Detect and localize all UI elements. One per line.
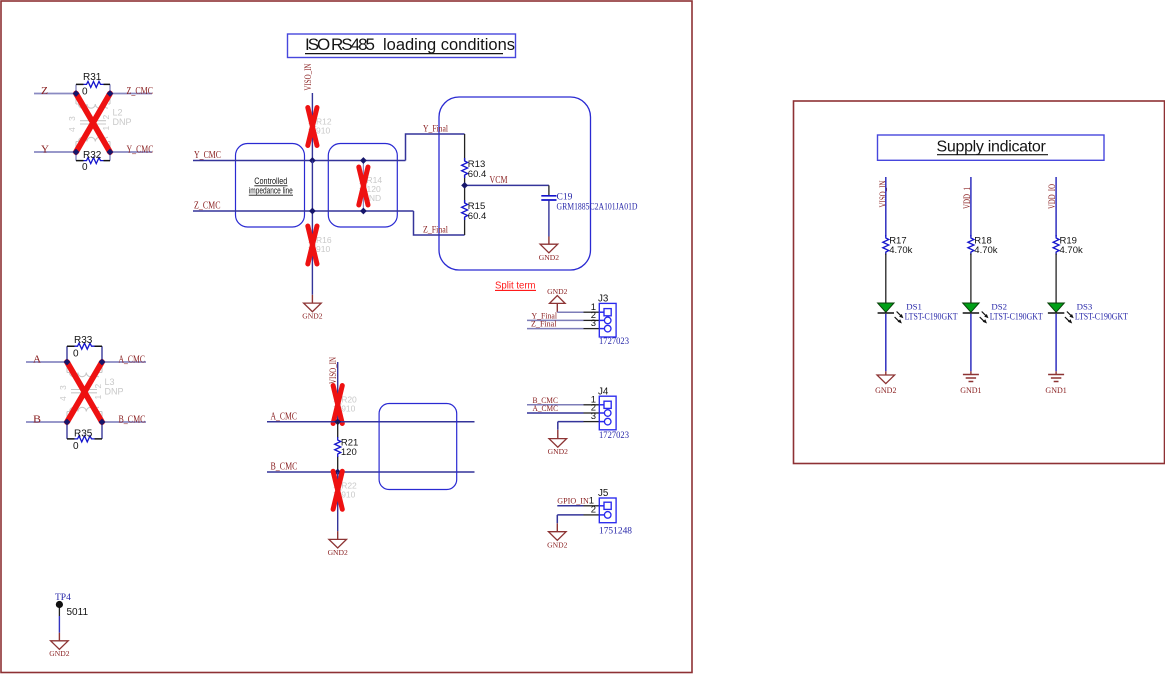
- panel title box: [878, 135, 1105, 160]
- wire J3 pin1: [557, 311, 583, 313]
- svg-text:1751248: 1751248: [599, 526, 632, 537]
- svg-text:GPIO_IN: GPIO_IN: [557, 496, 589, 506]
- svg-text:LTST-C190GKT: LTST-C190GKT: [1075, 311, 1128, 321]
- main schematic frame: [1, 1, 692, 673]
- resistor R16 ghost: [309, 235, 315, 255]
- ground GND1 column3: [1055, 371, 1057, 374]
- DNP cross over R20: [333, 386, 342, 424]
- wire supply 3 top: [1055, 177, 1057, 237]
- svg-text:Z_Final: Z_Final: [531, 319, 557, 329]
- svg-text:4.70k: 4.70k: [974, 245, 997, 256]
- wire A_CMC: [102, 361, 146, 363]
- svg-text:0: 0: [73, 349, 79, 360]
- svg-text:LTST-C190GKT: LTST-C190GKT: [990, 311, 1043, 321]
- svg-text:GND2: GND2: [328, 548, 348, 557]
- svg-text:Z_CMC: Z_CMC: [127, 86, 154, 97]
- wire Y_CMC: [110, 151, 152, 153]
- harness box 2: [328, 144, 397, 228]
- wire supply 1 bottom: [885, 314, 887, 372]
- junction dots L3: [64, 359, 71, 366]
- svg-text:Z: Z: [41, 86, 48, 97]
- svg-text:GND1: GND1: [1045, 386, 1066, 395]
- wire B_CMC: [102, 421, 146, 423]
- svg-text:DNP: DNP: [113, 117, 132, 127]
- svg-text:5011: 5011: [67, 607, 89, 618]
- wire R22 drop: [337, 472, 339, 531]
- svg-text:60.4: 60.4: [468, 211, 487, 222]
- svg-text:GND2: GND2: [539, 253, 559, 262]
- svg-text:DS1: DS1: [906, 301, 922, 311]
- resistor R32 bypass loop: [76, 150, 110, 173]
- wire GPIO_IN to J5 pin1: [557, 505, 583, 507]
- svg-text:0: 0: [73, 441, 79, 452]
- wire VCM: [465, 184, 549, 186]
- svg-text:J4: J4: [598, 386, 609, 397]
- svg-text:impedance line: impedance line: [249, 185, 293, 195]
- big harness box right: [439, 97, 591, 270]
- svg-text:Y_CMC: Y_CMC: [127, 144, 154, 155]
- svg-text:2: 2: [101, 115, 111, 120]
- resistor R35 bypass loop: [67, 422, 102, 452]
- common-mode choke L2 (ghost, DNP): [76, 94, 110, 153]
- wire supply 3 mid: [1055, 254, 1057, 304]
- svg-text:R33: R33: [74, 335, 93, 346]
- capacitor C19: [548, 185, 550, 195]
- connector J4 body: [599, 396, 616, 430]
- DNP cross over R12: [308, 108, 317, 146]
- wire R13 branch: [464, 134, 466, 235]
- svg-text:1: 1: [93, 395, 103, 400]
- harness box controlled impedance line: [236, 144, 305, 228]
- svg-text:2: 2: [93, 384, 103, 389]
- wire supply 1 mid: [885, 254, 887, 304]
- resistor R12 ghost: [309, 117, 315, 137]
- wire B_CMC bottom: [267, 471, 475, 473]
- DNP cross over L3: [67, 362, 102, 422]
- svg-text:1: 1: [101, 126, 111, 131]
- svg-text:A_CMC: A_CMC: [533, 403, 559, 413]
- svg-text:J3: J3: [598, 294, 609, 305]
- resistor R20 ghost: [335, 394, 341, 414]
- DNP cross over R14: [359, 167, 368, 205]
- junction A_CMC: [334, 418, 341, 425]
- wire A_CMC bottom: [267, 421, 475, 423]
- svg-text:VCM: VCM: [490, 175, 508, 186]
- svg-text:4.70k: 4.70k: [889, 245, 912, 256]
- supply column 1: [875, 177, 958, 395]
- DNP cross over R22: [333, 471, 342, 509]
- wire Z_Final to J3 pin3: [527, 328, 584, 330]
- ground GND2 below R22: [337, 531, 339, 539]
- svg-text:VISO_IN: VISO_IN: [304, 64, 314, 91]
- resistor R15: [462, 200, 468, 220]
- wire GND to J5 pin2: [584, 514, 600, 516]
- svg-text:DS2: DS2: [991, 301, 1007, 311]
- junction R14 top: [360, 157, 367, 164]
- svg-text:3: 3: [591, 411, 596, 422]
- wire Y_CMC main: [193, 160, 406, 162]
- svg-text:B: B: [33, 414, 41, 425]
- svg-text:R32: R32: [83, 150, 102, 161]
- svg-text:910: 910: [316, 244, 330, 254]
- junction VCM: [461, 182, 468, 189]
- wire Y: [34, 151, 76, 153]
- svg-text:A: A: [33, 354, 42, 365]
- junction B_CMC: [334, 469, 341, 476]
- wire GND to J4 pin3: [584, 421, 600, 423]
- wire supply 1 top: [885, 177, 887, 237]
- svg-text:R35: R35: [74, 429, 93, 440]
- wire B_CMC to J4 pin1: [527, 404, 584, 406]
- supply column 3: [1045, 177, 1128, 395]
- svg-text:Z_CMC: Z_CMC: [194, 200, 221, 211]
- svg-text:3: 3: [591, 318, 596, 329]
- ground GND2 below J5: [556, 523, 558, 531]
- junction R14 bottom: [360, 208, 367, 215]
- svg-text:DNP: DNP: [105, 387, 124, 397]
- svg-text:Y_Final: Y_Final: [423, 124, 448, 134]
- wire Z_CMC main: [193, 210, 414, 212]
- svg-text:4.70k: 4.70k: [1060, 245, 1083, 256]
- svg-text:910: 910: [316, 126, 330, 136]
- svg-text:2: 2: [591, 505, 596, 516]
- wire R16 drop: [311, 161, 313, 295]
- LED DS3: [1048, 303, 1074, 324]
- DNP cross over L2: [76, 94, 110, 153]
- resistor R14 ghost across pair: [362, 161, 364, 212]
- svg-text:910: 910: [341, 404, 355, 414]
- resistor R17: [883, 235, 889, 255]
- svg-text:4: 4: [67, 127, 77, 132]
- resistor R18: [968, 235, 974, 255]
- svg-text:Y_CMC: Y_CMC: [194, 150, 221, 161]
- svg-text:GND2: GND2: [49, 649, 69, 658]
- common-mode choke L3 (ghost, DNP): [67, 362, 102, 422]
- svg-text:GND2: GND2: [548, 447, 568, 456]
- junction R16/Z_CMC: [309, 208, 316, 215]
- connector J5 body: [599, 498, 616, 523]
- supply column 2: [960, 177, 1043, 395]
- svg-text:J5: J5: [598, 488, 609, 499]
- svg-text:Z_Final: Z_Final: [423, 225, 448, 235]
- svg-text:Split term: Split term: [495, 280, 536, 291]
- svg-text:R31: R31: [83, 72, 102, 83]
- svg-text:1727023: 1727023: [599, 430, 629, 441]
- ground GND2 below TP4: [58, 633, 60, 641]
- wire B: [26, 421, 67, 423]
- svg-text:Supply indicator: Supply indicator: [937, 139, 1047, 156]
- wire supply 2 mid: [970, 254, 972, 304]
- title box ISO RS485 loading conditions: [288, 34, 516, 58]
- svg-text:0: 0: [82, 87, 88, 98]
- resistor R19: [1053, 235, 1059, 255]
- svg-text:60.4: 60.4: [468, 169, 487, 180]
- wire Y_Final to J3 pin2: [527, 319, 584, 321]
- svg-text:B_CMC: B_CMC: [119, 414, 146, 425]
- svg-text:GND2: GND2: [302, 312, 322, 321]
- wire Y_Final riser: [406, 134, 465, 161]
- ground GND2 below C19: [548, 237, 550, 245]
- svg-text:L3: L3: [105, 377, 115, 387]
- svg-text:GND2: GND2: [547, 287, 567, 296]
- svg-text:C19: C19: [557, 193, 573, 203]
- wire supply 2 bottom: [970, 314, 972, 372]
- svg-text:A_CMC: A_CMC: [271, 411, 298, 422]
- svg-text:910: 910: [341, 490, 355, 500]
- DNP cross over R16: [308, 226, 317, 264]
- resistor R31 bypass loop: [76, 72, 110, 98]
- wire A: [26, 361, 67, 363]
- svg-text:0: 0: [82, 162, 88, 173]
- LED DS1: [878, 303, 904, 324]
- svg-text:1727023: 1727023: [599, 336, 629, 347]
- harness box bottom: [379, 404, 457, 490]
- wire Z: [34, 93, 76, 95]
- svg-text:ISO RS485: ISO RS485: [305, 35, 375, 54]
- svg-text:GND2: GND2: [875, 386, 896, 395]
- resistor R22 ghost: [335, 480, 341, 500]
- connector J3 body: [599, 303, 616, 337]
- junction dots L2: [73, 90, 80, 97]
- svg-text:B_CMC: B_CMC: [271, 462, 298, 473]
- svg-text:GND1: GND1: [960, 386, 981, 395]
- svg-text:loading conditions: loading conditions: [383, 35, 515, 54]
- svg-text:VISO_IN: VISO_IN: [879, 180, 889, 207]
- svg-text:4: 4: [58, 396, 68, 401]
- ground GND1 column2: [970, 371, 972, 374]
- wire VISO_IN drop: [311, 93, 313, 161]
- resistor R13: [462, 158, 468, 178]
- wire supply 3 bottom: [1055, 314, 1057, 372]
- wire Z_Final drop: [414, 211, 465, 235]
- svg-text:L2: L2: [113, 108, 123, 118]
- svg-text:3: 3: [58, 385, 68, 390]
- ground GND2 below J4: [557, 430, 559, 439]
- wire VISO_IN drop 2: [337, 362, 339, 422]
- junction VISO/Y_CMC: [309, 157, 316, 164]
- wire A_CMC to J4 pin2: [527, 412, 584, 414]
- wire supply 2 top: [970, 177, 972, 237]
- wire Z_CMC: [110, 93, 152, 95]
- wire R21 link: [337, 422, 339, 472]
- svg-text:Y: Y: [41, 144, 49, 155]
- svg-text:120: 120: [341, 447, 357, 458]
- resistor R33 bypass loop: [67, 335, 102, 362]
- resistor R21: [335, 437, 341, 457]
- ground GND2 column1: [885, 371, 887, 375]
- svg-text:DS3: DS3: [1077, 301, 1093, 311]
- svg-text:GND2: GND2: [547, 540, 567, 549]
- LED DS2: [963, 303, 989, 324]
- ground GND2 below R16: [311, 295, 313, 303]
- svg-text:A_CMC: A_CMC: [119, 354, 146, 365]
- svg-text:GRM1885C2A101JA01D: GRM1885C2A101JA01D: [557, 202, 638, 212]
- svg-text:3: 3: [67, 116, 77, 121]
- svg-text:LTST-C190GKT: LTST-C190GKT: [905, 311, 958, 321]
- panel frame: [794, 101, 1165, 464]
